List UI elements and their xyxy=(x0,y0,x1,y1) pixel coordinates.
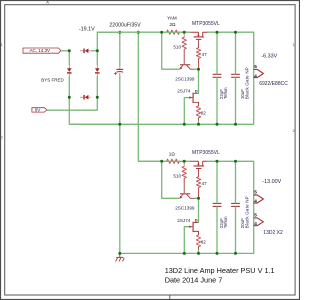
resistor 47 (gate) xyxy=(196,177,200,188)
wire: feed to second regulator xyxy=(138,32,161,161)
svg-text:Teflon: Teflon xyxy=(223,87,228,99)
svg-text:82: 82 xyxy=(201,110,207,115)
junction: bridge right bottom xyxy=(96,96,99,99)
capacitor 20uF Black Gate NP xyxy=(231,202,240,204)
transistor 2SC1399 (NPN) xyxy=(180,64,190,65)
wire: supply bus left segment xyxy=(138,160,190,162)
wire: base drive from bus xyxy=(162,161,179,198)
svg-text:13D2 Line Amp Heater PSU V 1.: 13D2 Line Amp Heater PSU V 1.1 xyxy=(165,266,275,275)
wire: collector node to gate resistor xyxy=(195,197,199,199)
svg-text:2SC1399: 2SC1399 xyxy=(175,206,195,211)
junction: bus feed tap xyxy=(137,31,140,34)
svg-text:0V: 0V xyxy=(35,107,41,112)
diode D3 (bridge right) xyxy=(96,65,98,68)
svg-text:D: D xyxy=(195,219,198,223)
MOSFET Q4 MTP3055VL (pass) xyxy=(190,161,198,165)
wire: lower bus xyxy=(120,252,254,254)
wire: supply bus left segment xyxy=(97,31,190,33)
svg-text:5: 5 xyxy=(254,64,257,69)
svg-text:MTP3055VL: MTP3055VL xyxy=(192,150,220,156)
svg-text:Date 2014 June 7: Date 2014 June 7 xyxy=(165,275,223,284)
wire: bridge right top to bus xyxy=(97,32,120,51)
resistor 47 (gate) xyxy=(196,48,200,59)
wire: 22uF cap leads xyxy=(216,161,218,203)
wire: bridge left bottom to lower bus xyxy=(69,97,120,124)
svg-text:5: 5 xyxy=(254,212,257,217)
resistor 510 (base feed) xyxy=(183,32,185,37)
wire: second cap leads xyxy=(235,161,237,203)
resistor 82 (source) xyxy=(196,106,200,118)
svg-text:BYS FRED: BYS FRED xyxy=(41,77,64,82)
svg-text:2SC1399: 2SC1399 xyxy=(175,77,195,82)
MOSFET Q1 MTP3055VL (pass) xyxy=(190,32,198,36)
resistor 510 (base feed) xyxy=(183,161,185,166)
svg-text:-13.00V: -13.00V xyxy=(262,179,281,185)
wire: collector node down to JFET drain xyxy=(198,198,200,222)
junction dots xyxy=(160,160,163,163)
capacitor 22uF Teflon (lower) xyxy=(213,202,222,204)
wire: collector node to gate resistor xyxy=(195,68,199,70)
junction: bus cap tap xyxy=(118,31,121,34)
transistor 2SJ74 (JFET) xyxy=(193,222,194,232)
wire: collector node down to JFET drain xyxy=(198,69,200,93)
junction: bridge right top xyxy=(96,49,99,52)
svg-text:AC, 14.3V: AC, 14.3V xyxy=(30,48,51,53)
diode D2 (bridge left) xyxy=(68,65,70,68)
wire: AC input to bridge xyxy=(61,50,69,52)
svg-text:2Ω: 2Ω xyxy=(170,22,177,27)
wire: 82 resistor to lower bus xyxy=(198,121,200,125)
ground xyxy=(119,253,121,257)
wire: supply bus right segment xyxy=(208,32,254,124)
junction dots xyxy=(160,31,163,34)
svg-text:YAM: YAM xyxy=(167,16,177,21)
transistor 2SC1399 (NPN) xyxy=(180,193,190,194)
wire: 0V return xyxy=(47,97,97,110)
svg-text:A: A xyxy=(46,0,49,4)
wire: second cap leads xyxy=(235,32,237,74)
connector J3 heater 13D2 b xyxy=(254,218,264,226)
junction: AC node xyxy=(68,49,71,52)
svg-text:-19.1V: -19.1V xyxy=(79,27,95,33)
wire: bridge top right xyxy=(91,50,97,52)
wire: JFET gate to lower bus xyxy=(184,98,189,125)
junction: ground node xyxy=(118,252,121,255)
svg-text:2SJ74: 2SJ74 xyxy=(177,89,190,94)
svg-text:22000uF/35V: 22000uF/35V xyxy=(109,23,141,29)
connector J1 heater 6922/E88CC xyxy=(254,69,264,77)
svg-text:2SJ74: 2SJ74 xyxy=(177,218,190,223)
connector J2 heater 13D2 a xyxy=(254,195,264,203)
svg-text:6922/E88CC: 6922/E88CC xyxy=(259,81,288,87)
diode D1 (bridge top) xyxy=(80,50,84,52)
svg-text:5: 5 xyxy=(254,190,257,195)
svg-text:MTP3055VL: MTP3055VL xyxy=(192,21,220,27)
resistor R1 2Ω YAM (series) xyxy=(162,31,167,33)
svg-text:13D2 X2: 13D2 X2 xyxy=(263,230,283,236)
capacitor 10uF Black Gate NP xyxy=(231,73,240,75)
capacitor C1 22000uF/35V xyxy=(119,32,121,66)
svg-text:47: 47 xyxy=(202,181,208,186)
wire: 82 resistor to lower bus xyxy=(198,250,200,254)
svg-text:Black Gate NP: Black Gate NP xyxy=(245,67,250,99)
wire: base drive from bus xyxy=(162,32,179,69)
wire: cap bottom to lower bus and ground run xyxy=(119,76,121,253)
transistor 2SJ74 (JFET) xyxy=(193,93,194,103)
svg-text:Black Gate NP: Black Gate NP xyxy=(245,196,250,228)
svg-text:510: 510 xyxy=(173,45,181,50)
wire: lower bus xyxy=(69,123,253,125)
svg-text:510: 510 xyxy=(173,174,181,179)
wire: supply bus right segment xyxy=(208,161,254,253)
svg-text:-6.33V: -6.33V xyxy=(261,54,277,60)
resistor R5 1Ω (series) xyxy=(162,160,167,162)
wire: 22uF cap leads xyxy=(216,32,218,74)
resistor 82 (source) xyxy=(196,235,200,247)
global label 0V xyxy=(32,108,47,112)
capacitor 22uF Teflon xyxy=(213,73,222,75)
svg-text:Teflon: Teflon xyxy=(223,216,228,228)
svg-text:1Ω: 1Ω xyxy=(169,151,176,156)
svg-text:47: 47 xyxy=(202,52,208,57)
diode D4 (bridge bottom) xyxy=(80,96,84,98)
svg-text:82: 82 xyxy=(201,240,207,245)
global label AC 14.3V xyxy=(23,48,61,53)
wire: bridge right column xyxy=(96,51,98,65)
wire: JFET gate to lower bus xyxy=(184,227,189,254)
wire: bridge left column xyxy=(68,51,70,65)
junction: bridge left bottom xyxy=(68,96,71,99)
svg-text:D: D xyxy=(195,89,198,93)
